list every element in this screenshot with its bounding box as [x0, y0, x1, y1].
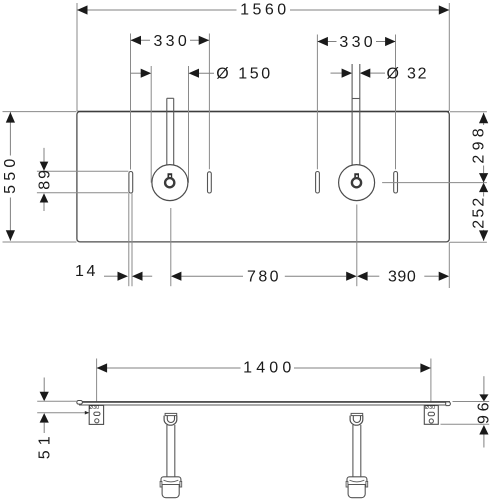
dimension 390 line — [368, 275, 439, 277]
dimension 550 extension lines — [3, 112, 77, 242]
wall bracket right — [424, 406, 438, 425]
slot left of faucet 2 — [316, 172, 320, 194]
extension line faucet1 centre — [170, 208, 172, 286]
drain trap right collar — [347, 477, 367, 485]
dimension 1560 extension lines — [77, 3, 449, 111]
faucet hole ring right — [352, 178, 361, 187]
dimension 298/252 reference lines — [382, 112, 487, 242]
faucet hole ring left — [165, 178, 174, 187]
basin outline (top view) — [77, 112, 449, 242]
dimension 89 reference lines — [37, 171, 128, 193]
drain trap right cup — [348, 485, 365, 498]
svg-text:Ø 32: Ø 32 — [386, 65, 428, 82]
dimension Ø150 extension lines — [151, 66, 188, 183]
drain trap right collar seam — [350, 480, 365, 482]
slab right end cap — [446, 402, 451, 406]
dimension 51 bottom arrow — [40, 413, 49, 423]
dimension 96 bottom arrow — [479, 425, 488, 435]
drain trap right clamp U — [350, 416, 363, 426]
dimension 780 line — [181, 275, 346, 277]
svg-text:Ø30: Ø30 — [89, 405, 99, 411]
svg-text:89: 89 — [37, 168, 54, 190]
svg-text:51: 51 — [36, 431, 53, 459]
bracket left slot — [94, 412, 100, 415]
bracket right slot — [428, 412, 434, 416]
dimension 298/252 line — [483, 113, 485, 241]
dimension 1560 line — [77, 9, 449, 11]
slab left end lip — [77, 401, 83, 405]
drain trap right collar tabs — [346, 481, 348, 487]
dimension 780 arrowheads — [171, 272, 182, 281]
drain trap left clamp bar — [165, 413, 177, 415]
dimension Ø150 line — [131, 72, 215, 74]
dimension 96 top arrow — [483, 376, 485, 395]
drain trap right clamp bar — [351, 413, 363, 415]
dimension 51 top reference line — [37, 400, 77, 402]
drain trap left clamp U — [164, 416, 177, 426]
drain trap left collar — [161, 477, 181, 485]
dimension 1400 extension lines — [97, 359, 431, 402]
dimension 330 right arrowheads — [317, 37, 328, 46]
svg-text:Ø 150: Ø 150 — [216, 65, 273, 82]
faucet circle right — [339, 165, 375, 201]
drain trap left cup — [162, 485, 179, 498]
dimension 1400 arrowheads — [97, 363, 108, 372]
svg-text:96: 96 — [475, 399, 492, 424]
extension line basin right edge — [448, 242, 450, 288]
svg-text:Ø30: Ø30 — [425, 405, 435, 411]
dimension 330 left arrowheads — [131, 36, 142, 45]
drain trap right pipe — [353, 425, 361, 477]
basin back edge (darker) — [78, 111, 450, 113]
dimension 89 arrows — [43, 148, 45, 162]
slot right — [394, 172, 398, 194]
dimension Ø32 arrowheads — [342, 69, 353, 78]
extension line faucet2 centre — [356, 205, 358, 287]
dimension 1560 arrowheads — [77, 5, 88, 14]
drain trap left collar seam — [164, 480, 179, 482]
slab bottom edge — [79, 404, 450, 406]
dimension 390 arrowheads — [357, 272, 368, 281]
dimension 330 right extension lines — [317, 35, 395, 170]
dimension 550 arrowheads — [6, 112, 15, 123]
svg-text:390: 390 — [388, 268, 417, 285]
svg-text:14: 14 — [75, 263, 98, 280]
dimension 330 left line — [131, 39, 210, 41]
dimension 330 right line — [317, 41, 395, 43]
spout pipe right (Ø32) — [352, 64, 360, 174]
dimension 1400 line — [97, 367, 431, 369]
dimension 51 top arrow — [43, 378, 45, 393]
slot left — [129, 172, 133, 194]
drain trap left pipe — [167, 425, 175, 477]
faucet hole tab left — [168, 173, 173, 177]
slab right lip line — [445, 401, 447, 405]
dimension 550 line — [9, 112, 11, 241]
svg-text:330: 330 — [153, 33, 190, 50]
svg-text:780: 780 — [247, 268, 281, 285]
dimension 14 lines and arrowheads — [104, 275, 118, 277]
dimension Ø150 arrowheads — [141, 69, 152, 78]
svg-text:550: 550 — [2, 155, 19, 194]
dimension 298/252 arrowheads — [479, 113, 488, 124]
svg-text:1560: 1560 — [240, 2, 290, 19]
dimension 96 reference lines — [441, 402, 490, 425]
dimension Ø32 line — [331, 72, 386, 74]
drain trap left collar tabs — [160, 481, 162, 487]
spout pipe left stub — [167, 98, 174, 173]
svg-text:1400: 1400 — [243, 359, 295, 376]
dimension 51 lower reference line — [37, 412, 89, 414]
bracket left hole — [95, 419, 99, 423]
dimension 330 left extension lines — [131, 34, 210, 170]
washbasin slab (front view) — [77, 401, 450, 403]
wall bracket left — [89, 405, 103, 424]
bracket right hole — [429, 419, 433, 423]
slot middle — [208, 172, 212, 193]
svg-text:252: 252 — [471, 195, 488, 228]
dimension 51 tiny arrow at bracket — [85, 411, 89, 415]
extension lines below left slot — [129, 193, 132, 286]
faucet hole tab right — [354, 173, 359, 177]
faucet circle left — [152, 165, 188, 201]
svg-text:298: 298 — [471, 124, 488, 164]
svg-text:330: 330 — [339, 34, 376, 51]
